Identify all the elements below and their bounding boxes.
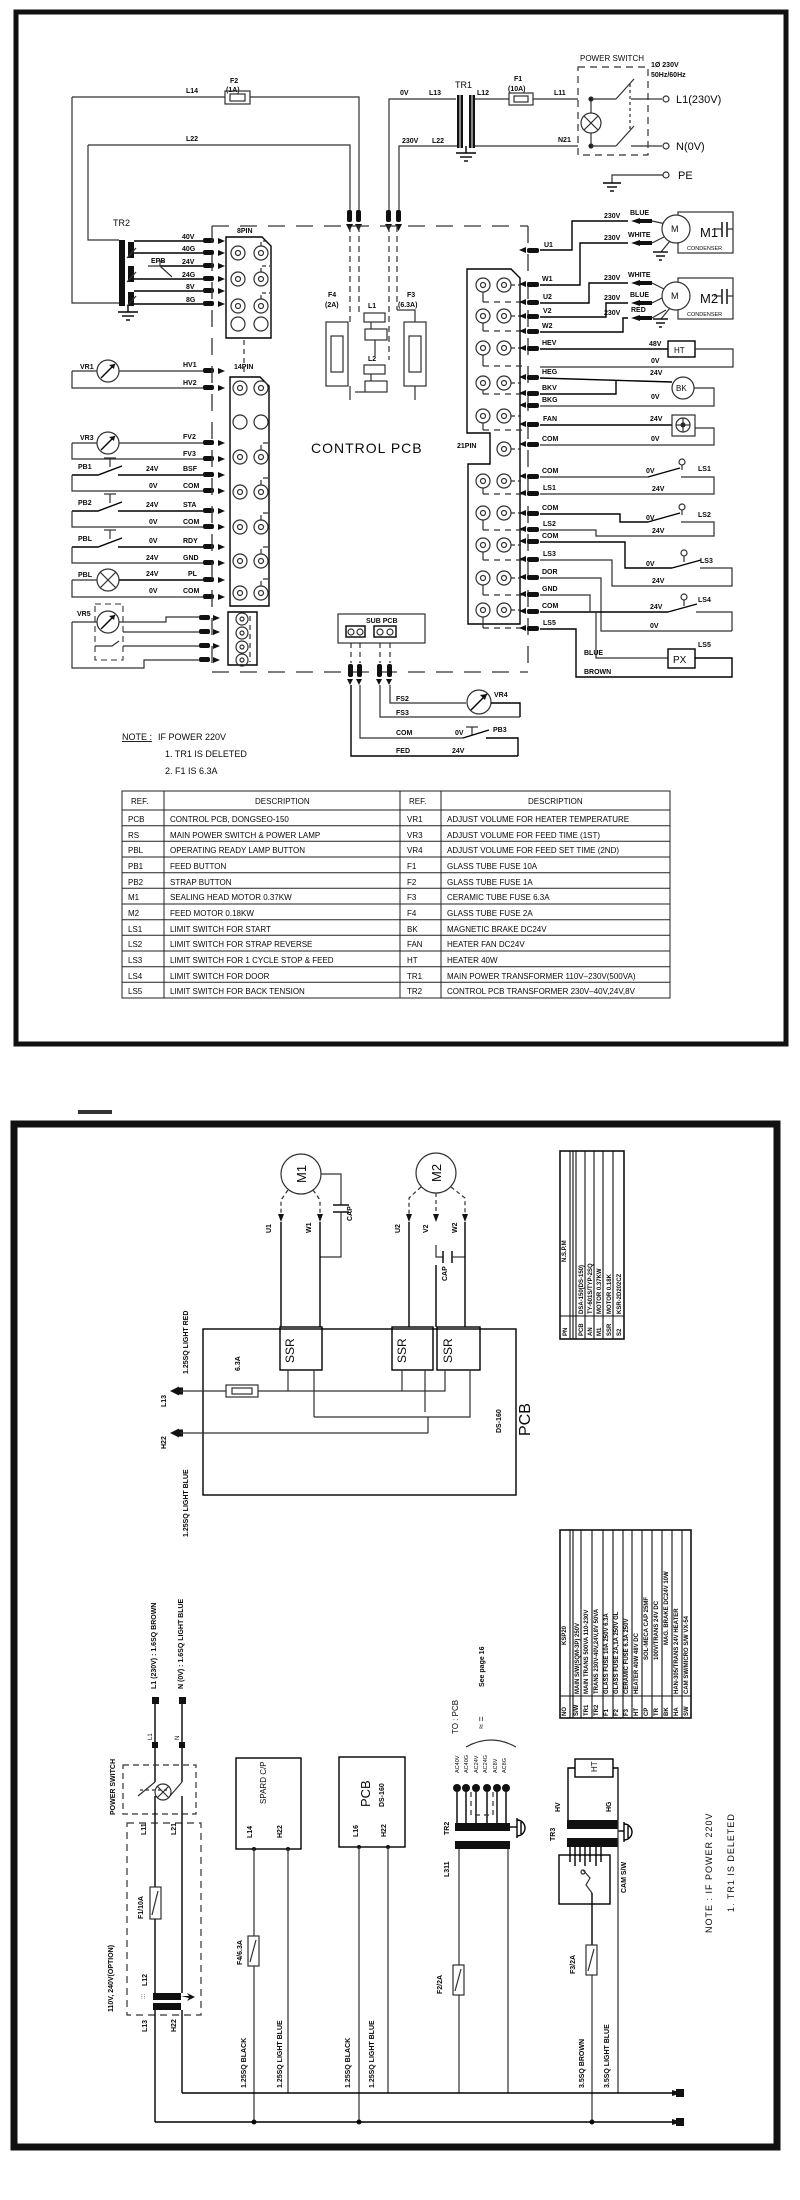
svg-text:M2: M2 [700, 291, 718, 306]
svg-text:230V: 230V [604, 310, 621, 317]
svg-text:0V: 0V [650, 623, 659, 630]
svg-text:230V: 230V [604, 213, 621, 220]
svg-text:≈ =: ≈ = [476, 1716, 486, 1729]
svg-text:LS4: LS4 [128, 972, 143, 981]
svg-text:AC40G: AC40G [464, 1755, 470, 1773]
svg-text:CERAMIC TUBE FUSE 6.3A: CERAMIC TUBE FUSE 6.3A [447, 893, 550, 902]
svg-text:TRANS 230V-40V,24V,8V 50VA: TRANS 230V-40V,24V,8V 50VA [594, 1608, 600, 1694]
ground TR1 [456, 146, 476, 161]
fuse F1 (10A) [508, 76, 533, 105]
svg-text:L2: L2 [368, 356, 376, 363]
svg-text:24V: 24V [650, 416, 663, 423]
svg-text:100V/TRANS 24V DC: 100V/TRANS 24V DC [654, 1600, 660, 1660]
svg-text:MAGNETIC BRAKE DC24V: MAGNETIC BRAKE DC24V [447, 925, 547, 934]
svg-text:HAN-305/TRANS 24V HEATER: HAN-305/TRANS 24V HEATER [674, 1608, 680, 1694]
svg-text:FEED BUTTON: FEED BUTTON [170, 862, 227, 871]
svg-text:AC24G: AC24G [483, 1755, 489, 1773]
fuse F4/6.3A page2 [237, 1849, 259, 2125]
svg-text:L11: L11 [554, 90, 566, 97]
svg-text:LIMIT SWITCH FOR BACK TENSION: LIMIT SWITCH FOR BACK TENSION [170, 987, 305, 996]
pins TR2 to 8PIN [203, 238, 225, 307]
svg-text:PB2: PB2 [78, 500, 92, 507]
svg-text:HT: HT [634, 1708, 640, 1716]
svg-text:3.5SQ LIGHT BLUE: 3.5SQ LIGHT BLUE [604, 2024, 611, 2088]
svg-text:LS2: LS2 [543, 521, 556, 528]
svg-text:3.5SQ BROWN: 3.5SQ BROWN [579, 2039, 586, 2088]
21PIN jumpers [483, 285, 527, 628]
svg-text:BK: BK [664, 1707, 670, 1716]
bottom wire labels page2 [241, 2020, 611, 2088]
svg-text:COM: COM [542, 533, 559, 540]
switch EPB [148, 258, 172, 277]
svg-text:U2: U2 [543, 294, 552, 301]
svg-text:110V, 240V(OPTION): 110V, 240V(OPTION) [108, 1945, 115, 2012]
svg-text:0V: 0V [455, 730, 464, 737]
transformer TR2 page2 [444, 1822, 510, 1877]
svg-text:24V: 24V [452, 748, 465, 755]
svg-text:W2: W2 [542, 323, 553, 330]
svg-text:M1: M1 [294, 1165, 309, 1183]
inductor L2 [355, 340, 387, 392]
svg-text:LS5: LS5 [543, 620, 556, 627]
svg-text:F1/10A: F1/10A [138, 1896, 145, 1919]
fuse F3 (6.3A) [397, 292, 426, 400]
svg-text:ADJUST VOLUME FOR HEATER TEMPE: ADJUST VOLUME FOR HEATER TEMPERATURE [447, 815, 629, 824]
svg-text:M: M [671, 224, 679, 234]
svg-text:PCB: PCB [517, 1403, 534, 1436]
svg-text:MOTOR 0.37KW: MOTOR 0.37KW [597, 1268, 603, 1314]
svg-text:GLASS TUBE FUSE 10A: GLASS TUBE FUSE 10A [447, 862, 538, 871]
svg-text:24V: 24V [146, 555, 159, 562]
svg-text:PCB: PCB [579, 1323, 585, 1336]
svg-text:HV1: HV1 [183, 362, 197, 369]
svg-text:VR3: VR3 [407, 831, 423, 840]
svg-text:F4: F4 [328, 292, 336, 299]
svg-text:MAIN TRANS 500VA 110-230V: MAIN TRANS 500VA 110-230V [584, 1610, 590, 1694]
svg-text:FV3: FV3 [183, 451, 196, 458]
terminal L1(230V) [648, 94, 721, 106]
svg-text:LIMIT SWITCH FOR DOOR: LIMIT SWITCH FOR DOOR [170, 972, 270, 981]
svg-text:F2/2A: F2/2A [437, 1975, 444, 1994]
svg-text:REF.: REF. [131, 797, 148, 806]
heater HT [540, 341, 733, 367]
svg-text:NOTE : IF POWER 220V: NOTE : IF POWER 220V [704, 1812, 714, 1933]
svg-text:PBL: PBL [78, 572, 93, 579]
wire 0V L13 [389, 90, 456, 212]
svg-text:HA: HA [674, 1707, 680, 1716]
ground TR2 page2 [510, 1818, 525, 1838]
svg-text:PBL: PBL [128, 846, 144, 855]
svg-text:F1: F1 [407, 862, 417, 871]
svg-text:WHITE: WHITE [628, 272, 651, 279]
svg-text:See page 16: See page 16 [479, 1646, 486, 1687]
svg-text:50Hz/60Hz: 50Hz/60Hz [651, 72, 686, 79]
svg-text:F2: F2 [614, 1708, 620, 1716]
M2 wires to SSR [408, 1222, 410, 1327]
wire SPARD H22 down [287, 1849, 289, 2093]
svg-text:DS-160: DS-160 [379, 1783, 386, 1807]
svg-text:SSR: SSR [283, 1338, 297, 1363]
svg-text:0V: 0V [149, 519, 158, 526]
svg-text:TR3: TR3 [550, 1828, 557, 1841]
svg-text:SSR: SSR [441, 1338, 455, 1363]
svg-text:MOTOR 0.18K: MOTOR 0.18K [607, 1273, 613, 1314]
potentiometer VR1 [72, 360, 203, 388]
svg-text:IF POWER 220V: IF POWER 220V [158, 732, 226, 742]
ground TR2 [118, 306, 138, 320]
svg-text:1.25SQ BLACK: 1.25SQ BLACK [241, 2038, 248, 2088]
SSR 1 [280, 1327, 322, 1370]
svg-text:L1: L1 [148, 1733, 154, 1740]
svg-text:W1: W1 [306, 1222, 313, 1233]
svg-text:PN: PN [563, 1328, 569, 1336]
svg-text:230V: 230V [604, 235, 621, 242]
terminal N(0V) [648, 141, 705, 153]
capacitor CAP M2 [436, 1245, 465, 1281]
svg-text:BLUE: BLUE [584, 650, 603, 657]
svg-text:M2: M2 [429, 1164, 444, 1182]
svg-text:SEALING HEAD MOTOR 0.37KW: SEALING HEAD MOTOR 0.37KW [170, 893, 292, 902]
svg-text:LS1: LS1 [698, 466, 711, 473]
svg-text:HV2: HV2 [183, 380, 197, 387]
left rail from L22 [88, 145, 119, 240]
wire L11 [533, 90, 578, 99]
terminal L1 page2 [148, 1603, 159, 1782]
pins at 14PIN left [203, 368, 225, 600]
svg-text:HT: HT [674, 346, 685, 355]
capacitor CAP M1 [320, 1174, 354, 1257]
svg-text:SW: SW [684, 1706, 690, 1716]
wire FS2 with potentiometer VR4 [390, 685, 520, 717]
svg-text:S2: S2 [617, 1328, 623, 1336]
svg-text:M2: M2 [128, 909, 140, 918]
svg-text:HEV: HEV [542, 340, 557, 347]
svg-text:L14: L14 [186, 88, 198, 95]
fuse F2 (1A) [225, 78, 250, 104]
NOTE text [122, 732, 247, 776]
svg-text:LS3: LS3 [543, 551, 556, 558]
svg-text:ADJUST VOLUME FOR FEED SET TIM: ADJUST VOLUME FOR FEED SET TIME (2ND) [447, 846, 619, 855]
svg-text:TO : PCB: TO : PCB [451, 1700, 460, 1734]
limit switch LS4 [540, 578, 732, 631]
svg-text:POWER SWITCH: POWER SWITCH [110, 1759, 117, 1815]
svg-text:F1: F1 [604, 1708, 610, 1716]
push button PB2 [72, 494, 203, 527]
wire FS3 [380, 685, 520, 717]
power switch dashed box [578, 54, 686, 155]
svg-text:U1: U1 [544, 242, 553, 249]
svg-text:PB2: PB2 [128, 878, 144, 887]
svg-text:GLASS TUBE FUSE 1A: GLASS TUBE FUSE 1A [447, 878, 533, 887]
svg-text:F4/6.3A: F4/6.3A [237, 1940, 244, 1965]
motor M2 page2 [395, 1153, 468, 1233]
transformer TR1 [455, 80, 475, 148]
svg-text:VR5: VR5 [77, 611, 91, 618]
svg-text:BLUE: BLUE [630, 210, 649, 217]
limit switch LS1 [540, 459, 714, 494]
svg-text:AC40V: AC40V [455, 1755, 461, 1773]
power switch page2 [110, 1759, 196, 1823]
svg-text:GLASS TUBE FUSE 2A: GLASS TUBE FUSE 2A [447, 909, 533, 918]
svg-text:HT: HT [407, 956, 418, 965]
svg-text:M1: M1 [128, 893, 140, 902]
svg-text:PBL: PBL [78, 536, 93, 543]
switch contacts [591, 79, 648, 146]
svg-text:LS5: LS5 [698, 642, 711, 649]
parts table 2 page2 [560, 1530, 691, 1718]
svg-text:1.25SQ LIGHT BLUE: 1.25SQ LIGHT BLUE [369, 2020, 376, 2088]
svg-text:TY-601S/TYP-2SQ: TY-601S/TYP-2SQ [588, 1263, 594, 1314]
svg-text:PCB: PCB [358, 1780, 373, 1807]
svg-text:N21: N21 [558, 137, 571, 144]
svg-text:2. F1 IS 6.3A: 2. F1 IS 6.3A [165, 766, 218, 776]
fuse F3/2A page2 [570, 1945, 597, 2125]
svg-text:PL: PL [188, 571, 198, 578]
wire H22 page2 [161, 1429, 428, 1450]
ground TR3 page2 [618, 1822, 632, 1842]
svg-text:AC8G: AC8G [502, 1758, 508, 1773]
svg-text:COM: COM [542, 603, 559, 610]
option box 110V 240V [108, 1823, 201, 2015]
svg-text:CERAMIC FUSE 6.3A 250V: CERAMIC FUSE 6.3A 250V [624, 1619, 630, 1694]
svg-text:RS: RS [128, 831, 139, 840]
TR2 secondary wires 40V 40G 24V 24G 8V 8G [134, 241, 203, 304]
svg-text:COM: COM [542, 468, 559, 475]
svg-text:DOR: DOR [542, 569, 558, 576]
svg-text:POWER SWITCH: POWER SWITCH [580, 54, 644, 63]
svg-text:L11: L11 [141, 1823, 148, 1835]
PCB box page2 [203, 1329, 516, 1495]
page 2 border frame [14, 1124, 777, 2147]
svg-text:S/W: S/W [574, 1704, 580, 1716]
proximity PX LS5 [540, 612, 732, 677]
TO : PCB bundle [451, 1646, 516, 1823]
svg-text:M: M [671, 291, 679, 301]
push button PB1 [72, 458, 203, 491]
svg-text:L14: L14 [247, 1826, 254, 1838]
box SPARD C/P [236, 1758, 301, 1851]
svg-text:N(0V): N(0V) [676, 141, 705, 153]
svg-text:SSR: SSR [395, 1338, 409, 1363]
svg-text:TR1: TR1 [455, 80, 472, 90]
CONTROL PCB dashed boundary [212, 226, 528, 672]
svg-text:LS2: LS2 [698, 512, 711, 519]
svg-text:HG: HG [606, 1801, 613, 1812]
svg-text:TR1: TR1 [407, 972, 423, 981]
svg-text::::: ::: [141, 1994, 147, 1999]
svg-text:KSP20: KSP20 [562, 1625, 568, 1645]
svg-text:40G: 40G [182, 246, 196, 253]
svg-text:NOTE :: NOTE : [122, 732, 152, 742]
motor M2 [540, 272, 733, 332]
svg-text:230V: 230V [402, 138, 419, 145]
svg-text:PE: PE [678, 170, 693, 182]
svg-text:1.25SQ LIGHT BLUE: 1.25SQ LIGHT BLUE [183, 1469, 190, 1537]
svg-text:L16: L16 [353, 1825, 360, 1837]
svg-text:MAIN POWER TRANSFORMER 110V–23: MAIN POWER TRANSFORMER 110V–230V(500VA) [447, 972, 636, 981]
TR2 right wire down [507, 1849, 509, 2093]
svg-text:HEATER 40W 48V DC: HEATER 40W 48V DC [634, 1632, 640, 1694]
svg-text:W1: W1 [542, 276, 553, 283]
svg-text:H22: H22 [381, 1824, 388, 1837]
svg-text:FV2: FV2 [183, 434, 196, 441]
svg-text:M1: M1 [597, 1327, 603, 1336]
svg-text:24V: 24V [146, 466, 159, 473]
page 1 border frame [16, 12, 786, 1044]
svg-text:DSA-150(DS-150): DSA-150(DS-150) [579, 1265, 585, 1314]
svg-text:L1 (230V) : 1.6SQ BROWN: L1 (230V) : 1.6SQ BROWN [151, 1603, 158, 1689]
brake BK [540, 370, 714, 406]
svg-text:PB1: PB1 [128, 862, 144, 871]
push button PBL [72, 530, 203, 563]
svg-text:DESCRIPTION: DESCRIPTION [528, 797, 583, 806]
svg-text:HT: HT [590, 1761, 599, 1772]
svg-text:AC8V: AC8V [493, 1758, 499, 1773]
limit switch LS2 [540, 504, 714, 536]
svg-text:0V: 0V [646, 468, 655, 475]
svg-text:COM: COM [396, 730, 413, 737]
svg-text:FED: FED [396, 748, 410, 755]
svg-text:L12: L12 [142, 1974, 149, 1986]
fuse F4 (2A) [325, 292, 350, 400]
svg-text:1Ø 230V: 1Ø 230V [651, 62, 679, 69]
wire COM with push button PB3 [360, 685, 518, 756]
connector 14PIN [230, 364, 270, 606]
svg-text:F2: F2 [407, 878, 417, 887]
svg-text:L13: L13 [161, 1395, 168, 1407]
svg-text:TR1: TR1 [584, 1704, 590, 1716]
reference table [122, 791, 670, 998]
svg-text:PCB: PCB [128, 815, 144, 824]
box PCB DS-160 [339, 1757, 405, 2125]
connector 4PIN [228, 612, 257, 666]
wire N21 [475, 137, 578, 146]
parts table 1 page2 [560, 1151, 624, 1339]
svg-text:SUB PCB: SUB PCB [366, 618, 398, 625]
pins below SUB PCB [347, 664, 392, 685]
svg-text:NO: NO [562, 1707, 568, 1716]
limit switch LS3 [540, 542, 732, 586]
svg-text:230V: 230V [604, 295, 621, 302]
svg-text:LIMIT SWITCH FOR START: LIMIT SWITCH FOR START [170, 925, 271, 934]
connector 21PIN [457, 269, 520, 624]
svg-text:COM: COM [542, 505, 559, 512]
dashed link 8PIN to 14PIN [243, 340, 245, 375]
svg-text:HEATER FAN DC24V: HEATER FAN DC24V [447, 940, 525, 949]
svg-text:VR4: VR4 [494, 692, 508, 699]
svg-text:VR1: VR1 [407, 815, 423, 824]
svg-text:COM: COM [542, 436, 559, 443]
svg-text:CAM SW/MICRO S/W VX-54: CAM SW/MICRO S/W VX-54 [684, 1615, 690, 1694]
svg-text:0V: 0V [149, 538, 158, 545]
dashed drops from SUB PCB [351, 643, 390, 663]
bottom rail N [182, 2089, 684, 2097]
svg-text:REF.: REF. [409, 797, 426, 806]
svg-text:CONTROL PCB, DONGSEO-150: CONTROL PCB, DONGSEO-150 [170, 815, 289, 824]
svg-text:CAM S/W: CAM S/W [621, 1862, 628, 1894]
svg-text:230V: 230V [604, 275, 621, 282]
svg-text:V2: V2 [423, 1224, 430, 1233]
svg-text:24V: 24V [652, 486, 665, 493]
svg-text:CONTROL PCB TRANSFORMER 230V–4: CONTROL PCB TRANSFORMER 230V–40V,24V,8V [447, 987, 636, 996]
svg-text:8G: 8G [186, 297, 196, 304]
svg-text:0V: 0V [651, 394, 660, 401]
transformer TR3 page2 [550, 1820, 618, 1847]
svg-text:L311: L311 [444, 1861, 451, 1877]
21PIN pins [519, 247, 539, 631]
svg-text:(2A): (2A) [325, 302, 339, 309]
switch CAM S/W [559, 1847, 628, 1945]
svg-text:0V: 0V [149, 588, 158, 595]
svg-text:VR1: VR1 [80, 364, 94, 371]
svg-text:U2: U2 [395, 1224, 402, 1233]
svg-text:CONTROL PCB: CONTROL PCB [311, 440, 423, 456]
svg-text:0V: 0V [149, 483, 158, 490]
motor M1 page2 [266, 1154, 323, 1233]
svg-text:H22: H22 [277, 1825, 284, 1838]
svg-text:L22: L22 [432, 138, 444, 145]
svg-text:BKV: BKV [542, 385, 557, 392]
SSR 2 [392, 1327, 433, 1370]
svg-text:TR2: TR2 [113, 218, 130, 228]
svg-text:FAN: FAN [543, 416, 557, 423]
svg-text:0V: 0V [651, 358, 660, 365]
svg-text:GND: GND [542, 586, 558, 593]
svg-text:FAN: FAN [407, 940, 423, 949]
svg-text:21PIN: 21PIN [457, 443, 476, 450]
svg-text:24V: 24V [650, 370, 663, 377]
svg-text:COM: COM [183, 588, 200, 595]
svg-text:LS1: LS1 [543, 485, 556, 492]
svg-text:LS5: LS5 [128, 987, 143, 996]
svg-text:L13: L13 [429, 90, 441, 97]
svg-text:DS-160: DS-160 [496, 1409, 503, 1433]
svg-text:VR3: VR3 [80, 435, 94, 442]
page 2 artifact dash [78, 1110, 112, 1114]
svg-text:BLUE: BLUE [630, 292, 649, 299]
svg-text:24V: 24V [652, 528, 665, 535]
svg-text:L13: L13 [142, 2020, 149, 2032]
pins at PCB edge top [346, 210, 402, 231]
svg-text:TR2: TR2 [594, 1704, 600, 1716]
svg-text:F3: F3 [407, 292, 415, 299]
wire L13 to SSRs [258, 1370, 470, 1433]
svg-text:BKG: BKG [542, 397, 558, 404]
svg-text:WHITE: WHITE [628, 232, 651, 239]
left rail from L14 [72, 97, 119, 303]
svg-text:H22: H22 [161, 1436, 168, 1449]
power lamp RS [581, 97, 601, 148]
svg-text:CONDENSER: CONDENSER [687, 312, 722, 318]
svg-text:L1(230V): L1(230V) [676, 94, 721, 106]
heater HT page2 [555, 1759, 618, 1820]
svg-text:F2: F2 [230, 78, 238, 85]
svg-text:OPERATING READY LAMP BUTTON: OPERATING READY LAMP BUTTON [170, 846, 305, 855]
svg-text:LS4: LS4 [698, 597, 711, 604]
svg-text:V2: V2 [543, 308, 552, 315]
svg-text:(6.3A): (6.3A) [398, 302, 417, 309]
svg-text:PB1: PB1 [78, 464, 92, 471]
svg-text:AC24V: AC24V [474, 1755, 480, 1773]
svg-text:FEED MOTOR 0.18KW: FEED MOTOR 0.18KW [170, 909, 254, 918]
wire L22 [88, 136, 350, 212]
wire L21 down [181, 1823, 183, 1993]
svg-text:0V: 0V [646, 561, 655, 568]
svg-text:RDY: RDY [183, 538, 198, 545]
svg-text:CP: CP [644, 1708, 650, 1716]
svg-text:N.S.P.M: N.S.P.M [562, 1240, 568, 1262]
svg-text:24V: 24V [146, 502, 159, 509]
